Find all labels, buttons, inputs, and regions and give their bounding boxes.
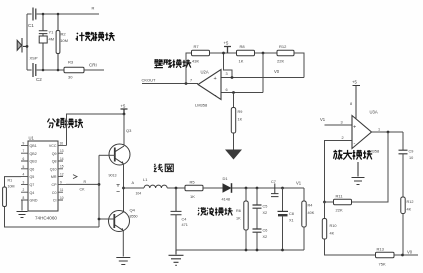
svg-text:C0: C0 [52, 191, 57, 195]
resistor R4 V1 column [302, 188, 306, 250]
transistor Q4 [109, 211, 130, 232]
svg-text:-: - [215, 93, 217, 99]
svg-text:Q3: Q3 [126, 128, 132, 133]
svg-text:104: 104 [136, 192, 142, 196]
svg-text:QB2: QB2 [30, 152, 37, 156]
svg-text:8: 8 [350, 102, 352, 106]
svg-text:R3: R3 [68, 60, 74, 65]
capacitor C1 [33, 8, 36, 21]
svg-text:R9: R9 [238, 110, 243, 114]
pin marks totem [117, 185, 120, 192]
wire bottom bus to R1 [5, 177, 100, 227]
ground below Q4 [116, 258, 130, 265]
wire R5 to D1 [203, 187, 223, 189]
wire filter bottom rail [176, 249, 304, 251]
U1 right pin stubs [58, 145, 67, 200]
resistor R6 [244, 188, 248, 250]
svg-text:C4: C4 [182, 218, 187, 222]
ground amplifier [352, 162, 365, 185]
node bottom R6 [245, 249, 248, 252]
svg-text:R10: R10 [330, 224, 337, 228]
wire collector Q3 [123, 114, 125, 146]
wire divider to inverting input [262, 53, 264, 93]
svg-text:3: 3 [341, 121, 343, 125]
resistor R10 [322, 202, 375, 255]
wire top rail counting module [27, 13, 99, 15]
svg-text:QB1: QB1 [30, 144, 37, 148]
svg-text:74HC4060: 74HC4060 [35, 216, 57, 221]
svg-text:V0: V0 [407, 250, 413, 255]
svg-text:X1: X1 [289, 219, 294, 223]
svg-text:471: 471 [182, 223, 188, 227]
node CKOUT-R7 junction [185, 82, 188, 85]
svg-text:Q4: Q4 [30, 191, 35, 195]
svg-text:11: 11 [60, 188, 64, 192]
wire R7 left leg [186, 53, 192, 84]
U1 left pin numbers [23, 141, 25, 200]
svg-text:VCC: VCC [49, 144, 57, 148]
svg-text:+5: +5 [121, 104, 126, 109]
node R8-R12 junction [262, 52, 265, 55]
svg-text:C8: C8 [289, 212, 294, 216]
svg-text:LM358: LM358 [195, 103, 208, 108]
wire bottom rail counting module [27, 69, 104, 71]
svg-text:R2: R2 [61, 32, 67, 37]
svg-text:V1: V1 [296, 181, 302, 186]
ground filter [169, 250, 184, 265]
resistor R8 [237, 50, 255, 55]
wire U1 CP output [66, 183, 99, 185]
svg-text:Q10: Q10 [50, 167, 57, 171]
svg-text:9: 9 [60, 180, 62, 184]
svg-text:Q8: Q8 [52, 160, 57, 164]
capacitor C9 [399, 132, 408, 154]
wire totem pole Q3-Q4 [123, 164, 125, 212]
speaker XSP [17, 38, 27, 53]
svg-text:4: 4 [23, 173, 25, 177]
capacitor C2 [33, 63, 36, 77]
svg-text:2: 2 [342, 136, 344, 140]
node bottom rail x58 [57, 69, 60, 72]
node top rail x43 [42, 13, 45, 16]
text 滤波模块 [198, 207, 233, 215]
wire plus input jog [224, 53, 233, 78]
svg-text:2: 2 [23, 188, 25, 192]
svg-text:12: 12 [60, 172, 64, 176]
svg-text:R8: R8 [240, 44, 246, 49]
node output junction [387, 131, 390, 134]
svg-text:R13: R13 [377, 247, 385, 252]
power +5 shaping [224, 47, 231, 54]
wire VCC riser to +5 [67, 114, 125, 145]
svg-text:X2: X2 [263, 211, 268, 215]
U1 right pin numbers [60, 141, 64, 200]
svg-text:R11: R11 [336, 194, 344, 199]
node V0 out junction [401, 254, 404, 257]
svg-text:X2: X2 [263, 235, 268, 239]
node bottom rail x43 [42, 69, 45, 72]
svg-text:30: 30 [68, 75, 73, 80]
svg-text:6: 6 [226, 88, 228, 92]
resistor R13 [376, 252, 395, 257]
svg-text:1K: 1K [236, 217, 241, 221]
pin names U1 right column [49, 144, 57, 203]
svg-text:C6: C6 [263, 229, 268, 233]
svg-text:9: 9 [23, 141, 25, 145]
svg-text:+5: +5 [224, 41, 229, 46]
svg-text:C1: C1 [28, 23, 34, 28]
svg-text:+5: +5 [352, 80, 357, 85]
clock marker [73, 175, 77, 179]
svg-text:CI: CI [53, 199, 57, 203]
svg-text:22K: 22K [336, 208, 343, 213]
power +5 amplifier [353, 86, 361, 120]
wire base Q4 [99, 218, 114, 220]
svg-text:U3A: U3A [370, 110, 378, 115]
wire minus input row [221, 92, 263, 94]
wire emitter Q4 to ground [122, 231, 124, 257]
svg-text:R: R [92, 6, 95, 11]
resistor R3 [64, 67, 84, 72]
svg-text:XSP: XSP [30, 56, 38, 61]
resistor R15 [401, 154, 405, 255]
svg-text:9013: 9013 [109, 174, 117, 178]
node bottom C6 [256, 249, 259, 252]
wire base bus [98, 155, 100, 227]
U1 left pin stubs [21, 145, 28, 200]
text 计数模块 [76, 32, 115, 41]
resistor R1 [3, 187, 7, 207]
svg-text:10M: 10M [60, 38, 68, 43]
svg-text:R12: R12 [279, 44, 287, 49]
svg-text:6: 6 [23, 157, 25, 161]
wire R11 to minus leg [325, 201, 334, 203]
capacitor C4 [171, 188, 182, 250]
wire CKOUT input [142, 83, 198, 85]
node top rail x58 [57, 13, 60, 16]
capacitor C7 tap [271, 184, 279, 197]
wire main rail right of D1 [232, 187, 305, 189]
resistor R7 [192, 50, 210, 55]
svg-text:QB3: QB3 [30, 160, 37, 164]
svg-text:13: 13 [60, 149, 64, 153]
svg-text:Q5: Q5 [30, 175, 35, 179]
svg-text:15: 15 [60, 165, 64, 169]
node filter C4 junction [175, 187, 178, 190]
svg-text:GND: GND [30, 199, 38, 203]
crystal Y1 [39, 14, 48, 70]
wire R12 to V0 row [294, 53, 304, 78]
wire minus input U3A [325, 141, 353, 203]
op-amp U2A [198, 70, 221, 100]
svg-text:CK: CK [80, 188, 86, 192]
svg-text:4M: 4M [49, 37, 55, 42]
svg-text:14: 14 [60, 157, 64, 161]
svg-text:R4: R4 [308, 204, 313, 208]
svg-text:3: 3 [226, 72, 228, 76]
node totem output A [122, 187, 125, 190]
wire coil to R5 [167, 187, 185, 189]
node plus input [231, 76, 234, 79]
text 放大模块 [333, 150, 372, 160]
svg-text:1K: 1K [239, 59, 244, 64]
resistor R9 [231, 93, 235, 150]
node rail R6 [245, 187, 248, 190]
svg-text:10: 10 [409, 156, 413, 160]
svg-text:16: 16 [60, 141, 64, 145]
svg-text:40K: 40K [308, 211, 315, 215]
svg-text:7: 7 [23, 149, 25, 153]
svg-text:Q4: Q4 [130, 208, 136, 213]
svg-text:43K: 43K [192, 59, 199, 64]
wire R7 to R8 [210, 52, 237, 54]
wire feedback vertical [352, 132, 389, 202]
wire R13 to V0 out [394, 254, 418, 256]
wire left rail counting module [26, 14, 28, 70]
ground shaping [225, 150, 242, 160]
resistor R12 [277, 50, 294, 55]
svg-text:10M: 10M [8, 185, 15, 189]
svg-text:CKOUT: CKOUT [142, 78, 157, 83]
svg-text:3: 3 [23, 180, 25, 184]
svg-text:Q6: Q6 [30, 167, 35, 171]
node R11 left junction [323, 201, 326, 204]
svg-text:CRI: CRI [89, 63, 97, 68]
svg-text:R1: R1 [8, 179, 13, 183]
svg-text:4K: 4K [407, 208, 412, 212]
node rail C5 [256, 187, 259, 190]
node junction speaker-rail [26, 45, 29, 48]
power +5 divider [121, 109, 128, 114]
op-amp U3A [352, 116, 372, 149]
text 整形模块 [154, 59, 191, 68]
text 分频模块 [47, 118, 83, 128]
svg-text:1: 1 [378, 128, 380, 132]
svg-text:D1: D1 [223, 176, 229, 181]
svg-text:U1: U1 [29, 136, 35, 141]
svg-text:8550: 8550 [130, 215, 138, 219]
wire GND stub U1 [21, 200, 23, 211]
svg-text:+: + [214, 76, 217, 82]
svg-text:U2A: U2A [201, 70, 209, 75]
svg-text:R6: R6 [236, 209, 241, 213]
svg-text:8: 8 [23, 196, 25, 200]
svg-text:7: 7 [190, 79, 192, 83]
svg-text:1K: 1K [190, 194, 195, 199]
wire V0 row [221, 77, 304, 79]
svg-text:+: + [353, 125, 356, 131]
svg-text:LM358: LM358 [367, 149, 380, 154]
svg-text:R: R [84, 180, 87, 184]
resistor R2 [56, 14, 60, 70]
node rail C8 [281, 187, 284, 190]
capacitor C5 [253, 188, 262, 208]
svg-text:R12: R12 [407, 200, 414, 204]
node bottom C8 [281, 249, 284, 252]
svg-text:1K: 1K [238, 118, 243, 122]
svg-text:C2: C2 [36, 77, 42, 82]
resistor R5 [185, 185, 203, 190]
wire totem to coil [124, 187, 145, 189]
capacitor C6 [253, 208, 262, 250]
svg-text:4K: 4K [330, 232, 335, 236]
svg-text:R7: R7 [194, 44, 200, 49]
svg-text:CP: CP [52, 183, 58, 187]
svg-text:5: 5 [23, 165, 25, 169]
node +5 collector junction [123, 113, 126, 116]
svg-text:L1: L1 [143, 177, 148, 182]
svg-text:C9: C9 [409, 150, 414, 154]
inductor L1 coil [144, 185, 167, 188]
svg-text:Q7: Q7 [30, 183, 35, 187]
node base bus CK [98, 183, 101, 186]
wire plus input U3A [325, 124, 353, 126]
svg-text:22K: 22K [277, 59, 284, 64]
svg-text:R5: R5 [190, 180, 196, 185]
resistor R11 [334, 199, 352, 204]
wire base Q3 [99, 154, 115, 156]
node jog top [222, 52, 225, 55]
svg-text:Y1: Y1 [49, 30, 55, 35]
wire R8 to R12 [255, 52, 278, 54]
svg-text:V1: V1 [320, 117, 326, 122]
transistor Q3 [109, 144, 130, 165]
IC U1 74HC4060 [28, 141, 58, 211]
node minus input R9 [232, 91, 235, 94]
svg-text:C7: C7 [271, 180, 276, 184]
svg-text:MR: MR [51, 175, 57, 179]
svg-text:75K: 75K [379, 262, 386, 267]
text 线圈 [154, 164, 173, 172]
pin names U1 left column [30, 144, 38, 203]
ground U1 [17, 212, 28, 218]
svg-text:C5: C5 [263, 205, 268, 209]
capacitor C8 electrolytic [278, 188, 289, 250]
svg-text:V0: V0 [274, 69, 280, 74]
svg-text:4148: 4148 [222, 198, 230, 202]
node base bus Q4 [98, 218, 101, 221]
svg-text:-: - [354, 141, 356, 147]
diode D1 [223, 183, 232, 193]
svg-text:Q9: Q9 [52, 152, 57, 156]
wire output U3A [372, 131, 404, 133]
svg-text:10: 10 [60, 196, 64, 200]
